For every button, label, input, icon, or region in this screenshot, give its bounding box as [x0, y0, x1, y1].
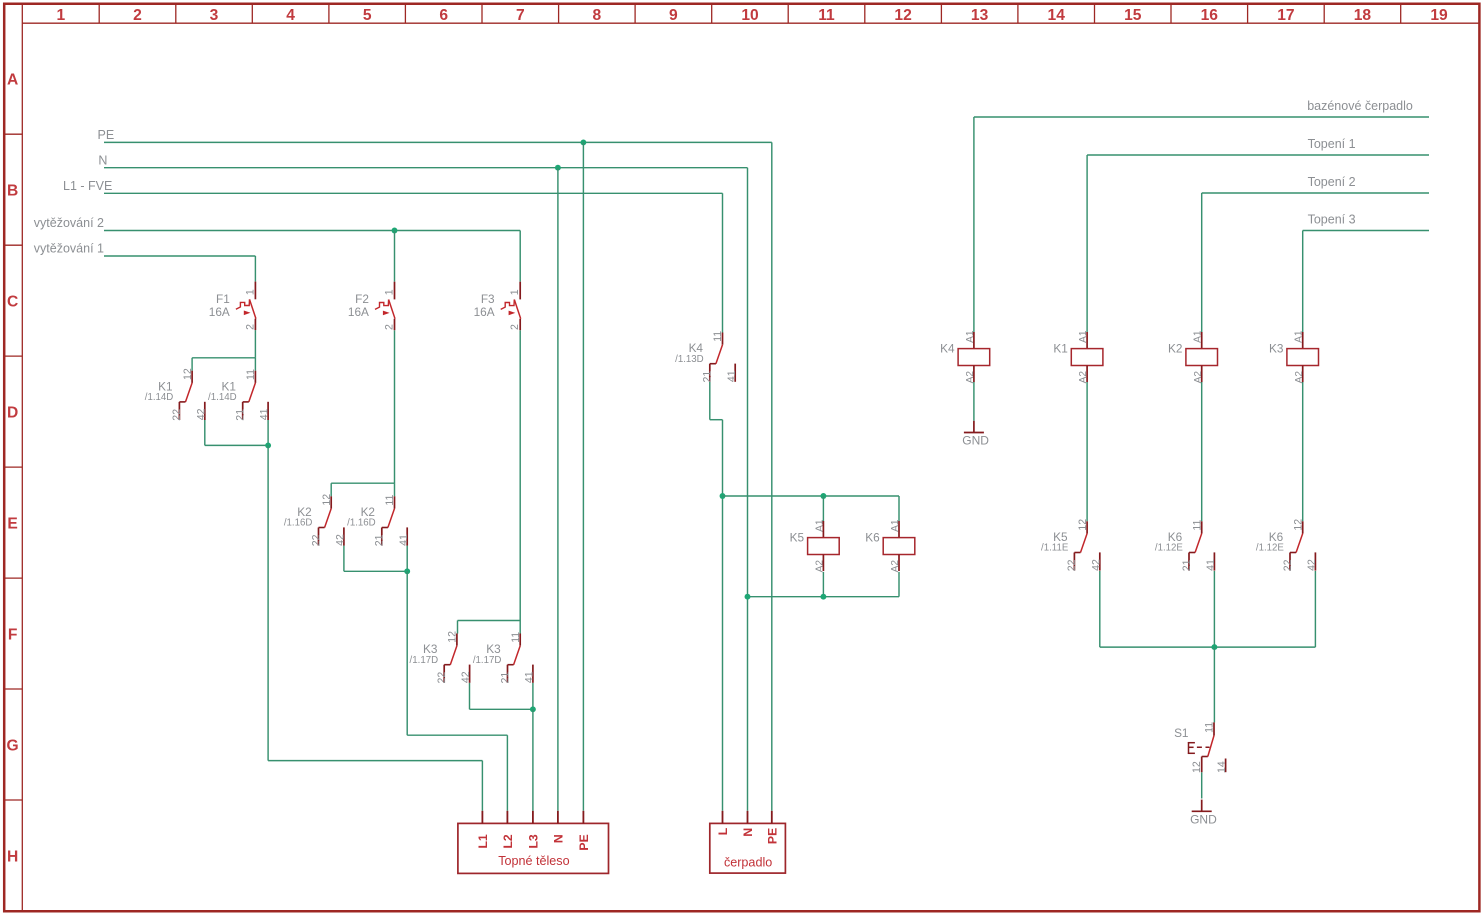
svg-text:GND: GND [962, 434, 989, 448]
svg-text:1: 1 [244, 289, 256, 295]
svg-text:/1.17D: /1.17D [410, 655, 439, 666]
svg-text:21: 21 [1181, 559, 1193, 571]
svg-text:12: 12 [1191, 761, 1203, 773]
wire to K2 pin 12 [330, 483, 332, 496]
svg-text:17: 17 [1277, 7, 1294, 24]
junction node N [555, 165, 561, 171]
wire L3 drop to Topné těleso [532, 709, 534, 811]
wire K3 coil A2 to K6 contact [1302, 382, 1304, 521]
svg-text:/1.13D: /1.13D [675, 354, 704, 365]
svg-text:A2: A2 [815, 560, 826, 573]
svg-text:K5: K5 [790, 531, 805, 545]
svg-text:11: 11 [384, 494, 396, 505]
svg-text:11: 11 [510, 632, 522, 643]
wire K3 pair top connector [458, 620, 521, 622]
svg-text:A2: A2 [1078, 371, 1089, 384]
wire net PE drop to Topné těleso [582, 142, 584, 810]
svg-text:6: 6 [439, 7, 448, 24]
wire from K1 pin 41 [267, 420, 269, 445]
contactor coil K5 [790, 519, 840, 572]
wire net N horizontal [104, 167, 748, 169]
svg-text:7: 7 [516, 7, 525, 24]
svg-text:1: 1 [57, 7, 66, 24]
wire from K1 pin 42 [204, 420, 206, 445]
wire K2 pair top connector [331, 482, 394, 484]
wire bus to S1 [1213, 647, 1215, 722]
wire net L1-FVE drop to K4 contact [722, 193, 724, 332]
svg-text:4: 4 [286, 7, 295, 24]
junction node PE [580, 139, 586, 145]
wire to K1 pin 11 [254, 358, 256, 371]
wire net Topení 3 [1303, 230, 1429, 232]
svg-text:/1.14D: /1.14D [145, 392, 174, 403]
wire from K2 pin 41 [406, 546, 408, 572]
svg-text:Topení 1: Topení 1 [1308, 137, 1356, 151]
svg-text:D: D [7, 404, 18, 421]
svg-text:12: 12 [1077, 519, 1089, 531]
svg-text:2: 2 [509, 324, 521, 330]
svg-text:14: 14 [1048, 7, 1066, 24]
svg-text:11: 11 [818, 7, 835, 24]
relay contact K2 (NC half, pins 12/22/42) [284, 494, 347, 547]
wire drop to K3 coil [1302, 231, 1304, 333]
svg-text:12: 12 [894, 7, 912, 24]
relay contact K6 /1.12E (pins 11/21/41) [1155, 519, 1217, 571]
wire net bazénové čerpadlo [974, 116, 1429, 118]
svg-text:42: 42 [1306, 559, 1318, 571]
relay contact K2 (NO half, pins 11/21/41) [347, 494, 410, 546]
svg-text:L3: L3 [527, 834, 541, 848]
circuit breaker F2 16A [348, 282, 396, 331]
svg-text:21: 21 [499, 672, 511, 684]
wire net PE drop to čerpadlo [771, 142, 773, 810]
svg-text:10: 10 [741, 7, 759, 24]
wire net PE horizontal [104, 141, 772, 143]
wire S1 pin 12 to ground [1201, 772, 1203, 798]
svg-text:11: 11 [1191, 519, 1203, 530]
svg-text:11: 11 [245, 369, 257, 380]
svg-text:22: 22 [1066, 559, 1078, 571]
relay contact K6 /1.12E (pins 12/22/42) [1256, 519, 1318, 572]
ground GND below S1 [1190, 800, 1217, 827]
svg-text:L1: L1 [476, 834, 490, 848]
svg-text:22: 22 [1282, 559, 1294, 571]
wire L2 horizontal run [407, 734, 507, 736]
svg-text:12: 12 [321, 494, 333, 506]
svg-text:22: 22 [310, 534, 322, 546]
svg-text:42: 42 [195, 408, 207, 420]
relay coil K4 [940, 330, 990, 383]
contactor coil K6 [865, 519, 915, 572]
svg-text:21: 21 [702, 371, 714, 383]
wire K1 pair top connector [192, 357, 255, 359]
svg-text:/1.17D: /1.17D [473, 655, 502, 666]
wire L drop to čerpadlo [722, 420, 724, 811]
wire F3 output [519, 330, 521, 620]
svg-text:F: F [8, 626, 18, 643]
relay contact K3 (NO half, pins 11/21/41) [473, 632, 536, 684]
svg-text:GND: GND [1190, 812, 1217, 826]
svg-text:11: 11 [712, 331, 724, 342]
wire net vytěžování 1 horizontal [104, 255, 255, 257]
svg-text:čerpadlo: čerpadlo [724, 855, 772, 869]
svg-text:13: 13 [971, 7, 989, 24]
wire drop to F3 [519, 231, 521, 282]
svg-text:S1: S1 [1174, 726, 1188, 740]
svg-text:N: N [741, 828, 755, 837]
svg-text:15: 15 [1124, 7, 1142, 24]
relay contact K5 /1.11E (pins 12/22/42) [1041, 519, 1102, 572]
svg-text:41: 41 [398, 534, 410, 546]
svg-text:41: 41 [524, 671, 536, 683]
svg-text:K3: K3 [1269, 342, 1284, 356]
wire contact output bus [1100, 646, 1316, 648]
wire net vytěžování 2 horizontal [104, 230, 520, 232]
junction node contact bus / S1 [1211, 644, 1217, 650]
wire drop to F1 [254, 256, 256, 282]
svg-text:11: 11 [1204, 722, 1216, 733]
svg-text:A1: A1 [814, 519, 825, 532]
wire from K2 pin 42 [343, 546, 345, 572]
wire K4 output jog [710, 419, 723, 421]
relay contact K3 (NC half, pins 12/22/42) [410, 631, 473, 684]
wire to K2 pin 11 [394, 483, 396, 496]
svg-text:PE: PE [765, 828, 779, 844]
svg-text:G: G [7, 737, 19, 754]
svg-text:C: C [7, 293, 18, 310]
svg-text:42: 42 [1090, 559, 1102, 571]
junction node K5 coil bottom [820, 594, 826, 600]
junction node K3 output [530, 706, 536, 712]
svg-text:vytěžování 2: vytěžování 2 [34, 216, 104, 230]
svg-text:A2: A2 [890, 560, 901, 573]
svg-text:/1.16D: /1.16D [347, 518, 376, 529]
wire to K5 coil A1 [822, 496, 824, 521]
svg-text:A1: A1 [890, 519, 901, 532]
emergency stop switch S1 (pins 11/12/14) [1174, 722, 1228, 773]
svg-text:A2: A2 [965, 371, 976, 384]
device box čerpadlo (pins L N PE) [710, 811, 786, 873]
svg-text:/1.16D: /1.16D [284, 518, 313, 529]
svg-text:41: 41 [259, 408, 271, 420]
svg-text:B: B [7, 183, 18, 200]
wire from K3 pin 41 [532, 683, 534, 710]
wire L1 drop to Topné těleso [481, 761, 483, 811]
junction node K1 output [265, 442, 271, 448]
svg-text:16A: 16A [348, 305, 369, 319]
svg-text:14: 14 [1216, 761, 1228, 773]
relay coil K3 [1269, 330, 1319, 383]
junction node vytěžování 2 / F2 [392, 228, 398, 234]
wire F1 output [254, 330, 256, 358]
wire net N drop to Topné těleso [557, 168, 559, 811]
relay coil K1 [1053, 330, 1103, 383]
wire coil bottom bus [748, 596, 900, 598]
wire K1 outputs join [205, 444, 268, 446]
frame row letters A-H [7, 72, 19, 866]
wire K3 outputs join [470, 708, 533, 710]
svg-text:bazénové čerpadlo: bazénové čerpadlo [1307, 99, 1413, 113]
svg-text:K6: K6 [865, 531, 880, 545]
svg-text:L1 - FVE: L1 - FVE [63, 179, 112, 193]
wire net N drop to čerpadlo [747, 168, 749, 811]
svg-text:42: 42 [460, 671, 472, 683]
svg-text:19: 19 [1430, 7, 1448, 24]
svg-text:12: 12 [447, 631, 459, 643]
svg-text:vytěžování 1: vytěžování 1 [34, 242, 104, 256]
svg-text:L2: L2 [501, 834, 515, 848]
svg-text:H: H [7, 848, 18, 865]
wire to K3 pin 11 [519, 621, 521, 634]
svg-text:16A: 16A [474, 305, 495, 319]
svg-text:PE: PE [98, 128, 115, 142]
wire from K6 contact pin 42 [1314, 571, 1316, 647]
wire K4 coil A2 to ground [973, 382, 975, 421]
wire drop to F2 [394, 231, 396, 282]
svg-text:9: 9 [669, 7, 678, 24]
wire K1 coil A2 to K5 contact [1086, 382, 1088, 521]
svg-text:41: 41 [726, 370, 738, 382]
svg-text:Topení 2: Topení 2 [1308, 175, 1356, 189]
svg-text:A2: A2 [1193, 371, 1204, 384]
junction node L / coil bus [720, 493, 726, 499]
ground GND below K4 coil [962, 421, 989, 448]
device box Topné těleso (pins L1 L2 L3 N PE) [458, 811, 609, 874]
junction node K5 coil top [820, 493, 826, 499]
wire L2 drop to Topné těleso [506, 735, 508, 811]
svg-text:A1: A1 [1078, 330, 1089, 343]
circuit breaker F3 16A [474, 282, 522, 331]
svg-text:Topení 3: Topení 3 [1308, 213, 1356, 227]
svg-text:2: 2 [384, 324, 396, 330]
wire K2 outputs join [344, 570, 407, 572]
relay contact K1 (NO half, pins 11/21/41) [208, 369, 271, 421]
wire drop to K2 coil [1201, 193, 1203, 332]
wire to K3 pin 12 [457, 621, 459, 634]
relay contact K4 /1.13D (pins 11/21/41) [675, 331, 738, 383]
svg-text:12: 12 [1292, 519, 1304, 531]
svg-text:A: A [7, 72, 18, 89]
svg-text:3: 3 [210, 7, 219, 24]
svg-text:8: 8 [592, 7, 601, 24]
wire net Topení 2 [1202, 192, 1429, 194]
svg-text:/1.14D: /1.14D [208, 392, 237, 403]
svg-text:12: 12 [182, 368, 194, 380]
wire drop to K4 coil [973, 117, 975, 332]
wire net Topení 1 [1087, 154, 1429, 156]
circuit breaker F1 16A [209, 282, 257, 331]
svg-text:1: 1 [509, 289, 521, 295]
svg-text:A1: A1 [965, 330, 976, 343]
svg-text:2: 2 [244, 324, 256, 330]
svg-text:5: 5 [363, 7, 372, 24]
wire from K5 contact pin 42 [1099, 571, 1101, 647]
junction node N / coil bus [745, 594, 751, 600]
svg-text:K4: K4 [940, 342, 955, 356]
svg-text:L: L [716, 827, 730, 835]
wire from K3 pin 42 [469, 683, 471, 710]
svg-text:E: E [7, 515, 17, 532]
wire to K6 coil A1 [898, 496, 900, 521]
svg-text:/1.11E: /1.11E [1041, 543, 1069, 554]
svg-text:2: 2 [133, 7, 142, 24]
wire K1 output down [267, 445, 269, 760]
junction node K2 output [404, 568, 410, 574]
wire L1 horizontal run [268, 760, 482, 762]
svg-text:K2: K2 [1168, 342, 1182, 356]
svg-text:21: 21 [235, 409, 247, 421]
wire from K6 coil A2 [898, 572, 900, 597]
svg-text:16A: 16A [209, 305, 230, 319]
svg-text:/1.12E: /1.12E [1256, 543, 1285, 554]
svg-text:/1.12E: /1.12E [1155, 543, 1184, 554]
wire to K1 pin 12 [191, 358, 193, 371]
wire from K6 contact pin 41 [1213, 571, 1215, 647]
svg-text:PE: PE [577, 834, 591, 850]
svg-text:22: 22 [436, 672, 448, 684]
wire from K5 coil A2 [822, 572, 824, 597]
relay contact K1 (NC half, pins 12/22/42) [145, 368, 208, 421]
relay coil K2 [1168, 330, 1218, 383]
wire K2 output down [406, 571, 408, 735]
wire K2 coil A2 to K6 contact [1201, 382, 1203, 521]
svg-text:41: 41 [1205, 559, 1217, 571]
svg-text:1: 1 [384, 289, 396, 295]
svg-text:42: 42 [335, 534, 347, 546]
svg-text:A1: A1 [1294, 330, 1305, 343]
wire net L1-FVE horizontal [104, 192, 723, 194]
svg-text:21: 21 [374, 534, 386, 546]
wire F2 output [394, 330, 396, 483]
svg-text:16: 16 [1201, 7, 1219, 24]
svg-text:K1: K1 [1053, 342, 1067, 356]
svg-text:N: N [98, 153, 107, 167]
svg-text:N: N [552, 834, 566, 843]
svg-text:22: 22 [171, 409, 183, 421]
wire from K4 contact pin 21 [709, 382, 711, 420]
svg-text:18: 18 [1354, 7, 1372, 24]
frame column numbers 1-19 [57, 7, 1448, 24]
wire drop to K1 coil [1086, 155, 1088, 332]
svg-text:A2: A2 [1294, 371, 1305, 384]
svg-text:Topné těleso: Topné těleso [498, 854, 569, 868]
wire coil top bus [723, 495, 900, 497]
svg-text:A1: A1 [1193, 330, 1204, 343]
